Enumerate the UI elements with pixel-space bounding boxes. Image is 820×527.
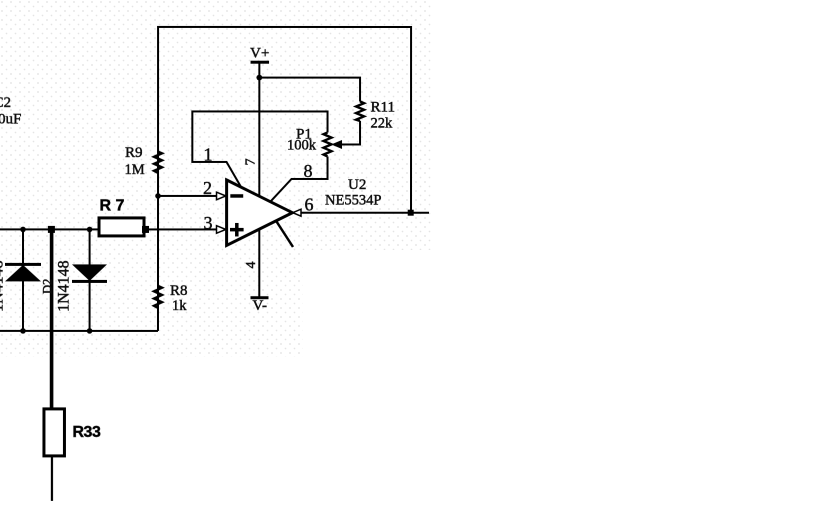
svg-text:1N4148: 1N4148 — [55, 260, 72, 312]
svg-text:V-: V- — [252, 298, 266, 314]
svg-text:3: 3 — [204, 213, 213, 233]
svg-text:V+: V+ — [250, 45, 269, 61]
op-amp pin5 stub — [276, 220, 294, 247]
diode D1 — [5, 264, 41, 281]
svg-text:6: 6 — [305, 194, 314, 214]
diode D2 — [72, 264, 107, 281]
svg-text:NE5534P: NE5534P — [325, 192, 381, 208]
svg-text:R8: R8 — [170, 283, 188, 299]
power V+ bar — [251, 61, 270, 64]
svg-text:8: 8 — [304, 161, 313, 181]
junction dot node H — [256, 75, 262, 81]
svg-text:7: 7 — [244, 158, 259, 165]
svg-text:2: 2 — [203, 178, 212, 198]
wire R33 bottom lead — [51, 455, 53, 501]
junction dot node F — [20, 328, 26, 334]
junction dot node A — [20, 227, 26, 233]
wire feedback pin1 loop — [192, 111, 327, 187]
resistor R33 body — [44, 409, 65, 456]
svg-text:D2: D2 — [40, 279, 54, 294]
junction dot node G — [87, 328, 93, 334]
wire top rail — [158, 27, 411, 331]
junction square node out — [408, 210, 414, 216]
junction dot node C — [87, 227, 93, 233]
wire pin4 to V- — [258, 229, 260, 298]
svg-text:U2: U2 — [348, 177, 366, 193]
svg-text:R33: R33 — [72, 424, 100, 441]
resistor R11 zigzag — [356, 101, 364, 121]
svg-text:R9: R9 — [125, 145, 143, 161]
svg-text:R11: R11 — [371, 99, 395, 115]
op-amp plus input marking — [230, 223, 244, 237]
wire bottom net — [0, 330, 158, 332]
pin 3 arrowhead — [217, 226, 226, 234]
wire R11 to P1 wiper — [341, 121, 361, 145]
svg-text:1M: 1M — [125, 162, 145, 178]
svg-text:0uF: 0uF — [0, 111, 21, 127]
svg-text:100k: 100k — [287, 137, 317, 153]
junction dot node E — [155, 193, 161, 199]
svg-text:1k: 1k — [172, 298, 187, 314]
junction square node B — [48, 226, 55, 233]
svg-text:1N4148: 1N4148 — [0, 260, 7, 312]
junction square node D — [142, 226, 149, 233]
pin 6 arrowhead — [293, 209, 301, 216]
wire pin2 input — [158, 195, 217, 197]
op-amp U1 triangle — [227, 180, 293, 246]
wire diode D2 branch — [89, 229, 91, 330]
wire V+ to pin7 — [258, 62, 260, 196]
wire P1 to pin8 — [270, 156, 328, 202]
power V- bar — [250, 296, 268, 299]
pin 2 arrowhead — [217, 192, 226, 200]
wire main left net — [0, 228, 99, 230]
wire V+ node to R11 — [259, 78, 360, 102]
potentiometer P1 zigzag — [324, 132, 332, 156]
wire output net — [301, 212, 430, 214]
svg-text:4: 4 — [244, 261, 259, 268]
wire diode D1 branch — [22, 229, 24, 331]
resistor R8 zigzag — [154, 286, 162, 308]
resistor R7 body — [99, 218, 144, 236]
resistor R9 zigzag — [154, 152, 162, 173]
svg-text:R 7: R 7 — [100, 197, 125, 214]
wire R33 top lead — [50, 229, 54, 408]
wire R7 output to pin3 — [144, 228, 217, 230]
potentiometer P1 wiper arrow — [333, 141, 342, 149]
op-amp minus input marking — [230, 194, 243, 198]
svg-text:22k: 22k — [371, 115, 394, 131]
svg-text:1: 1 — [204, 144, 213, 164]
svg-text:C2: C2 — [0, 95, 11, 111]
